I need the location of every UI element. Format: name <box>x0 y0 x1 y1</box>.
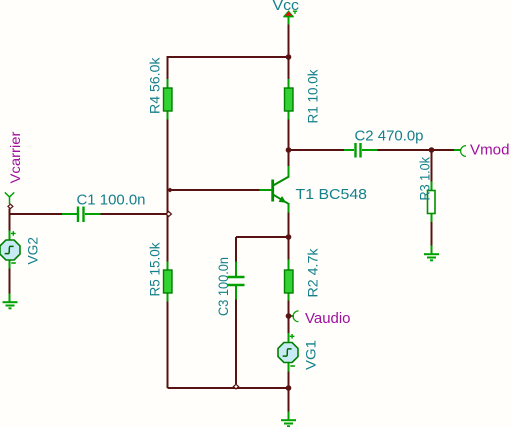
svg-text:C2 470.0p: C2 470.0p <box>355 128 424 145</box>
svg-text:Vmod: Vmod <box>470 142 510 159</box>
svg-text:C3 100.0n: C3 100.0n <box>215 257 231 316</box>
svg-text:Vaudio: Vaudio <box>305 310 351 327</box>
svg-text:C1 100.0n: C1 100.0n <box>77 192 146 209</box>
svg-text:VG2: VG2 <box>25 237 41 265</box>
svg-text:R2 4.7k: R2 4.7k <box>305 247 321 297</box>
svg-text:VG1: VG1 <box>303 340 319 370</box>
svg-text:R3 1.0k: R3 1.0k <box>417 156 433 200</box>
svg-text:R4 56.0k: R4 56.0k <box>147 57 163 114</box>
svg-text:R5 15.0k: R5 15.0k <box>147 242 163 297</box>
svg-text:T1 BC548: T1 BC548 <box>296 186 368 203</box>
svg-text:Vcarrier: Vcarrier <box>7 131 23 183</box>
svg-text:Vcc: Vcc <box>273 0 300 14</box>
svg-text:R1 10.0k: R1 10.0k <box>305 69 321 124</box>
